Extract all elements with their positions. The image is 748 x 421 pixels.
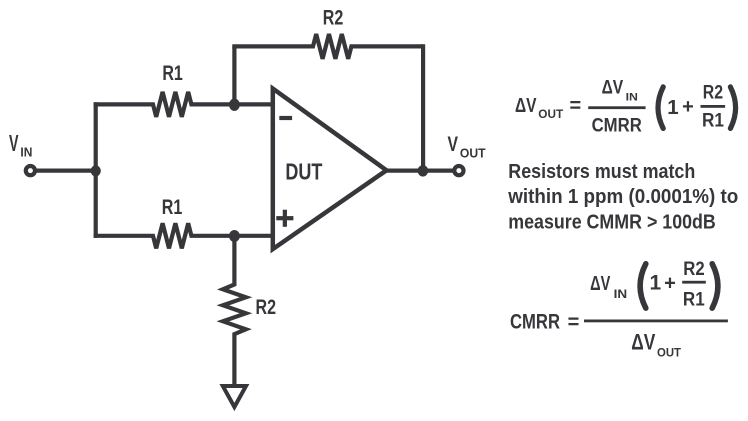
wire: feedback right vertical [421, 44, 425, 170]
svg-text:R2: R2 [683, 258, 705, 280]
svg-text:R1: R1 [702, 111, 724, 132]
svg-text:V: V [9, 130, 19, 156]
wire: Vin terminal to input node [35, 169, 98, 173]
svg-text:IN: IN [614, 289, 628, 301]
op-amp non-inverting input plus sign [276, 210, 293, 227]
svg-text:ΔV: ΔV [515, 95, 537, 117]
svg-text:R1: R1 [162, 61, 183, 85]
equation 2: CMRR formula [510, 258, 728, 359]
svg-text:=: = [570, 95, 582, 117]
wire: top branch with resistor R1 zigzag [94, 92, 275, 117]
svg-text:within 1 ppm (0.0001%) to: within 1 ppm (0.0001%) to [507, 185, 738, 208]
svg-text:OUT: OUT [657, 348, 681, 360]
op-amp inverting input minus sign [279, 116, 292, 120]
wire: feedback top with resistor R2 zigzag [234, 34, 423, 59]
svg-text:=: = [568, 312, 580, 334]
note text: resistor matching requirement [507, 160, 738, 234]
wire: op-amp output to Vout terminal [385, 169, 454, 173]
node: non-inverting input / R2 junction [229, 230, 240, 242]
svg-text:Resistors must match: Resistors must match [508, 160, 695, 183]
svg-text:V: V [448, 133, 459, 156]
equation 1: delta-Vout formula [515, 78, 736, 137]
node: output junction [418, 165, 429, 176]
svg-text:R2: R2 [323, 6, 344, 30]
op-amp U1 DUT triangle [273, 89, 387, 250]
terminal: Vout open circle [454, 166, 463, 175]
svg-text:R1: R1 [162, 195, 183, 219]
wire: ground branch with resistor R2 zigzag [223, 234, 246, 385]
svg-text:IN: IN [626, 92, 638, 104]
svg-text:CMRR: CMRR [510, 310, 560, 334]
terminal: Vin open circle [26, 166, 35, 175]
svg-text:DUT: DUT [285, 158, 322, 184]
wire: input vertical bus [94, 102, 98, 238]
wire: feedback left vertical [232, 46, 236, 106]
svg-text:R1: R1 [683, 289, 705, 311]
svg-text:measure CMMR > 100dB: measure CMMR > 100dB [508, 211, 716, 234]
svg-text:1: 1 [649, 272, 661, 295]
ground [223, 386, 246, 407]
svg-text:R2: R2 [703, 83, 723, 104]
svg-text:CMRR: CMRR [592, 115, 642, 136]
svg-text:1: 1 [667, 96, 678, 119]
node: inverting input / feedback junction [229, 99, 240, 111]
svg-text:ΔV: ΔV [590, 273, 611, 295]
svg-text:R2: R2 [256, 295, 277, 319]
svg-text:ΔV: ΔV [602, 78, 624, 99]
svg-text:+: + [664, 273, 676, 295]
svg-text:OUT: OUT [460, 147, 486, 161]
node: input junction [91, 165, 101, 176]
wire: bottom branch with resistor R1 zigzag [94, 223, 275, 248]
svg-text:ΔV: ΔV [631, 330, 655, 355]
svg-text:+: + [682, 96, 694, 118]
svg-text:OUT: OUT [538, 109, 563, 121]
svg-text:IN: IN [20, 145, 32, 160]
